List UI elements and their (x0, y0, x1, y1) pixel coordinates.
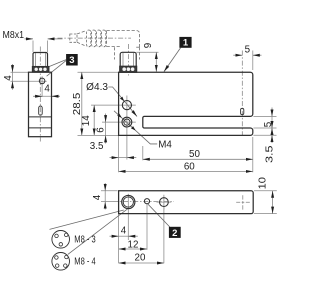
svg-text:4: 4 (92, 194, 103, 200)
svg-text:Ø4.3: Ø4.3 (86, 82, 108, 93)
svg-text:3: 3 (69, 55, 74, 66)
svg-text:3.5: 3.5 (264, 145, 275, 163)
svg-text:14: 14 (81, 115, 92, 126)
svg-text:5: 5 (263, 121, 274, 127)
svg-text:1: 1 (183, 38, 189, 49)
svg-text:12: 12 (128, 240, 139, 251)
svg-text:M8 - 4: M8 - 4 (74, 257, 96, 268)
svg-text:M8 - 3: M8 - 3 (74, 234, 96, 245)
svg-text:2: 2 (172, 228, 177, 239)
svg-text:4: 4 (121, 226, 127, 237)
svg-text:3.5: 3.5 (90, 141, 104, 152)
svg-text:20: 20 (135, 253, 146, 264)
svg-text:50: 50 (189, 149, 200, 160)
svg-text:28.5: 28.5 (72, 92, 83, 115)
svg-text:4: 4 (44, 83, 50, 94)
svg-text:6: 6 (96, 127, 107, 133)
svg-text:10: 10 (258, 176, 269, 189)
svg-text:M4: M4 (158, 140, 172, 151)
svg-text:4: 4 (3, 75, 14, 81)
svg-text:5: 5 (245, 45, 251, 56)
svg-text:M8x1: M8x1 (3, 30, 25, 41)
svg-text:9: 9 (143, 43, 154, 48)
svg-text:60: 60 (184, 162, 195, 173)
